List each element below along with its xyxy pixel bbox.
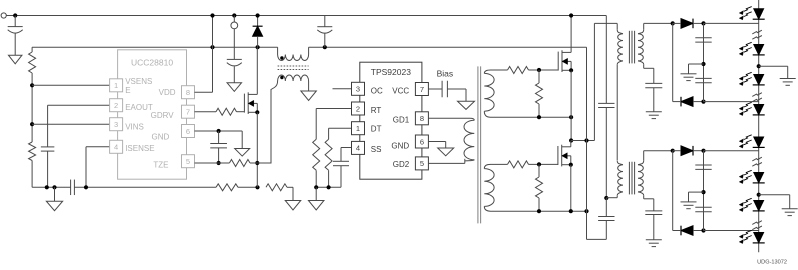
svg-text:3: 3 <box>356 85 360 94</box>
svg-text:UDG-13072: UDG-13072 <box>757 260 787 266</box>
svg-text:5: 5 <box>420 159 424 168</box>
svg-text:GD1: GD1 <box>393 115 410 124</box>
svg-text:1: 1 <box>114 81 118 90</box>
svg-text:7: 7 <box>186 108 190 117</box>
svg-text:8: 8 <box>420 114 424 123</box>
svg-text:VSENS: VSENS <box>125 77 152 86</box>
svg-text:4: 4 <box>356 144 360 153</box>
svg-text:SS: SS <box>371 145 382 154</box>
svg-text:VDD: VDD <box>159 88 176 97</box>
svg-text:6: 6 <box>186 127 190 136</box>
svg-text:2: 2 <box>356 104 360 113</box>
svg-text:DT: DT <box>371 125 382 134</box>
svg-text:VCC: VCC <box>392 86 409 95</box>
svg-text:GD2: GD2 <box>393 160 410 169</box>
svg-text:GND: GND <box>152 132 170 141</box>
svg-text:TZE: TZE <box>153 160 168 169</box>
svg-text:VINS: VINS <box>125 122 144 131</box>
svg-text:6: 6 <box>420 137 424 146</box>
svg-text:UCC28810: UCC28810 <box>131 58 173 68</box>
svg-text:GDRV: GDRV <box>151 111 175 120</box>
svg-text:7: 7 <box>420 85 424 94</box>
svg-text:1: 1 <box>356 124 360 133</box>
svg-text:EAOUT: EAOUT <box>125 103 153 112</box>
svg-text:OC: OC <box>371 86 383 95</box>
svg-text:2: 2 <box>114 101 118 110</box>
svg-text:GND: GND <box>391 141 409 150</box>
svg-text:8: 8 <box>186 88 190 97</box>
svg-text:4: 4 <box>114 143 118 152</box>
svg-text:5: 5 <box>186 157 190 166</box>
svg-text:3: 3 <box>114 120 118 129</box>
svg-text:RT: RT <box>371 106 382 115</box>
svg-text:TPS92023: TPS92023 <box>371 67 411 77</box>
svg-text:Bias: Bias <box>437 69 454 79</box>
svg-text:ISENSE: ISENSE <box>125 144 154 153</box>
svg-text:E: E <box>125 86 130 95</box>
